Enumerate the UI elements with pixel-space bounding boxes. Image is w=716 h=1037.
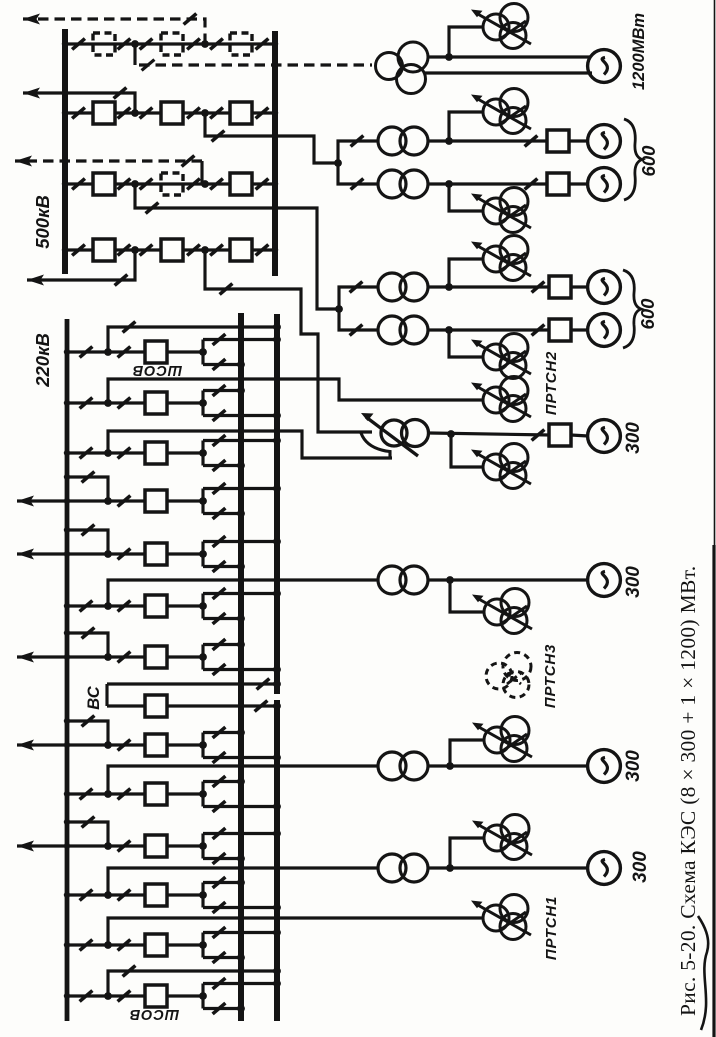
wire: T2 to breaker Q1 [428, 136, 547, 147]
transformer T4 (300MW unit 3) [378, 273, 428, 301]
220kV bay 3 breaker row [104, 442, 207, 464]
breaker Q4 (generator breaker) [549, 319, 571, 341]
generator G7 300MW [588, 564, 621, 597]
wire: T5 to breaker Q4 [428, 325, 550, 336]
busbar 220kV system 2 section B [274, 700, 280, 1021]
label 1200МВт [630, 13, 648, 90]
breaker Q3 (generator breaker) [549, 276, 571, 298]
label ПРТСН3 [542, 644, 559, 708]
svg-text:ШСОВ: ШСОВ [132, 362, 182, 378]
wire: TC to generator G9 [428, 864, 588, 872]
caption Рис. 5-20 [676, 566, 700, 1016]
label ВС [85, 685, 103, 710]
wire: TB to generator G8 [428, 762, 588, 770]
svg-text:ПРТСН2: ПРТСН2 [543, 351, 560, 415]
label ШСОВ (top) [132, 362, 182, 378]
wire: unit tap to TSN2 [449, 112, 483, 141]
aux transformer TSN2 [471, 89, 531, 134]
generator G3 300MW [588, 168, 621, 201]
label ПРТСН2 [543, 351, 560, 415]
220kV bay 7 bypass disconnector [64, 628, 108, 657]
generator G2 300MW [588, 125, 621, 158]
wire: fork to T5 [339, 309, 378, 335]
500kV line feeder W4 (arrow) [23, 88, 135, 114]
220kV bay 2 breaker row [104, 392, 207, 414]
bypass-coupler ШСОВ link to bus (bottom) [108, 966, 281, 996]
svg-text:ВС: ВС [85, 685, 103, 710]
aux transformer TSN3 [471, 188, 531, 233]
220kV bay 7 breaker row [104, 646, 207, 668]
caption underline flourish [698, 916, 708, 1030]
wire: AT to breaker Q5 [430, 430, 550, 441]
node: block-2 feeder fork [335, 305, 343, 313]
busbar 220kV bypass (W0) [65, 319, 70, 1021]
svg-text:ШСОВ: ШСОВ [129, 1006, 179, 1022]
220kV bay 6 bus selector fork [203, 588, 281, 624]
busbar 220kV system 1 [238, 313, 244, 1021]
220kV bay 4 breaker row [104, 490, 207, 512]
wire: T3 to breaker Q2 [428, 179, 547, 190]
transformer T2 (300MW unit 1) [378, 127, 428, 155]
wire: chain2 tap to 600MW duplex block 1 [205, 113, 338, 163]
aux transformer TSN5 [471, 334, 531, 379]
node: block-1 feeder fork [334, 159, 342, 167]
svg-text:300: 300 [623, 566, 644, 598]
svg-text:600: 600 [637, 298, 658, 330]
svg-text:600: 600 [638, 145, 659, 177]
220kV outgoing line (bay 4, arrow) [17, 496, 108, 507]
wire: unit tap to TSN (G7) [450, 580, 484, 612]
220kV bay 3 bus selector fork [203, 435, 281, 471]
500kV line feeder W6 (arrow) [27, 250, 135, 286]
svg-text:1200МВт: 1200МВт [630, 13, 648, 90]
aux transformer TSN4 [471, 236, 531, 281]
wire: bay 10 feeder to unit G8 [108, 766, 378, 794]
500kV breaker chain 3 (middle breaker future) [62, 173, 278, 195]
transformer T5 (300MW unit 4) [378, 316, 428, 344]
aux transformer TSN (G7) [472, 589, 532, 634]
bus section breaker bay ВС (220kV) [107, 679, 281, 717]
220kV bay 2 bus-side link [64, 398, 108, 409]
220kV bay 5 bus selector fork [203, 536, 281, 572]
svg-text:300: 300 [623, 750, 644, 782]
wire: chain4 tap to autotransformer AT [205, 250, 372, 432]
transformer TB (300MW unit G8) [378, 752, 428, 780]
220kV bay 11 breaker row [104, 835, 207, 857]
label ПРТСН1 [543, 896, 560, 960]
220kV bay 6 bus-side link [64, 601, 108, 612]
220kV bay 14 breaker row [104, 985, 207, 1007]
svg-text:300: 300 [630, 851, 651, 883]
bypass-coupler ШСОВ link to bus (top) [108, 322, 281, 352]
220kV bay 13 bus selector fork [203, 927, 281, 963]
wire: T4 to breaker Q3 [428, 282, 550, 293]
wire: unit tap to TSN6 [451, 434, 483, 467]
generator G1 1200MW [588, 50, 621, 83]
wire: fork to T2 [338, 136, 378, 163]
wire: bay 6 feeder to unit G7 [108, 580, 378, 606]
generator G4 300MW [588, 271, 621, 304]
220kV bay 10 bus selector fork [203, 776, 281, 812]
busbar 220kV system 2 section A [274, 314, 280, 694]
220kV bay 13 bus-side link [64, 940, 108, 951]
autotransformer AT 500/220 (on-load regulated) [361, 413, 429, 459]
transformer T1 (1200MW unit, split winding) [376, 42, 429, 94]
220kV bay 10 breaker row [104, 783, 207, 805]
generator G5 300MW [588, 314, 621, 347]
220kV outgoing line (bay 7, arrow) [17, 652, 108, 663]
future 500kV line feeder W3 (dashed, arrow) [23, 14, 205, 45]
220kV bay 5 bypass disconnector [64, 525, 108, 554]
220kV bay 1 breaker row [104, 341, 207, 363]
wire: Q2 to G3 [569, 182, 588, 185]
500kV breaker chain 1 (future) [62, 33, 278, 55]
busbar 500kV system 2 (W2) [272, 31, 278, 276]
aux transformer TSN (G8) [472, 717, 532, 762]
wire: T1 to generator G1 (double leads) [425, 53, 592, 73]
label 220кВ [32, 333, 53, 388]
220kV bay 2 bus selector fork [203, 385, 281, 421]
aux transformer PRTSN2 (reserve) [471, 377, 531, 422]
breaker Q5 (generator breaker) [549, 424, 571, 446]
generator G9 300MW [588, 852, 621, 885]
label ШСОВ (bottom) [129, 1006, 179, 1022]
transformer T3 (300MW unit 2) [378, 170, 428, 198]
220kV bay 12 breaker row [104, 884, 207, 906]
aux transformer TSN (G9) [472, 815, 532, 860]
busbar 500kV system 1 (W1) [62, 29, 68, 274]
220kV bay 14 bus selector fork [203, 978, 281, 1014]
wire: TA to generator G7 [428, 576, 588, 584]
page edge line [713, 0, 716, 1037]
generator G8 300MW [588, 750, 621, 783]
220kV outgoing line (bay 9, arrow) [17, 740, 108, 751]
svg-text:ПРТСН1: ПРТСН1 [543, 896, 560, 960]
svg-text:220кВ: 220кВ [32, 333, 53, 388]
brace: 600MW group 1 [624, 119, 642, 200]
220kV bay 9 bypass disconnector [64, 716, 108, 745]
220kV bay 13 breaker row [104, 934, 207, 956]
220kV bay 9 breaker row [104, 734, 207, 756]
future 500kV line feeder W5 (dashed, arrow) [15, 156, 202, 185]
220kV bay 4 bus selector fork [203, 483, 281, 519]
aux transformer PRTSN1 (reserve) [471, 895, 531, 940]
svg-text:500кВ: 500кВ [32, 195, 53, 249]
wire: chain1 tap to 1200MW unit (dashed) [135, 44, 372, 70]
500kV breaker chain 2 [62, 102, 278, 124]
220kV bay 5 breaker row [104, 543, 207, 565]
wire: Q5 to G6 [571, 435, 588, 436]
220kV bay 1 bus-side link [64, 347, 108, 358]
220kV outgoing line (bay 11, arrow) [17, 841, 108, 852]
220kV bay 6 breaker row [104, 595, 207, 617]
220kV bay 11 bus selector fork [203, 828, 281, 864]
aux transformer PRTSN3 (future, dashed) [486, 653, 531, 698]
wire: Q3 to G4 [571, 285, 588, 288]
220kV bay 7 bus selector fork [203, 639, 281, 675]
500kV breaker chain 4 [62, 239, 278, 261]
wire: chain3 tap to 600MW duplex block 2 [135, 184, 339, 309]
label 600 (block 2) [637, 298, 658, 330]
220kV bay 14 bus-side link [64, 991, 108, 1002]
brace: 600MW group 2 [623, 270, 641, 348]
label 500кВ [32, 195, 53, 249]
wire: fork to T4 [339, 282, 378, 309]
aux transformer TSN1 (1200MW unit) [471, 4, 531, 49]
wire: Q4 to G5 [571, 328, 588, 331]
wire: bay 2 feeder to PRTSN2 [108, 379, 483, 403]
breaker Q2 (generator breaker) [547, 173, 569, 195]
transformer TA (300MW unit G7) [378, 566, 428, 594]
label 300 (unit G7) [623, 566, 644, 598]
220kV bay 10 bus-side link [64, 789, 108, 800]
svg-text:Рис. 5-20. Схема КЭС (8 × 300: Рис. 5-20. Схема КЭС (8 × 300 + 1 × 1200… [676, 566, 700, 1016]
aux transformer TSN6 [471, 444, 531, 489]
wire: bay 12 feeder to unit G9 [108, 868, 378, 895]
svg-text:300: 300 [623, 422, 644, 454]
wire: unit tap to TSN (G8) [450, 740, 484, 766]
220kV bay 11 bypass disconnector [64, 817, 108, 846]
wire: G1 unit tap to TSN1 [449, 27, 483, 57]
220kV bay 1 bus selector fork [203, 334, 281, 370]
label 600 (block 1) [638, 145, 659, 177]
wire: Q1 to G2 [569, 139, 588, 142]
label 300 (unit G8) [623, 750, 644, 782]
wire: bay 3 feeder to AT (220kV side) [108, 431, 392, 458]
wire: unit tap to TSN3 [449, 184, 483, 211]
220kV bay 3 bus-side link [64, 448, 108, 459]
220kV bay 9 bus selector fork [203, 727, 281, 763]
wire: bay 13 feeder to PRTSN1 [108, 918, 483, 945]
generator G6 300MW [588, 420, 621, 453]
transformer TC (300MW unit G9) [378, 854, 428, 882]
220kV bay 12 bus selector fork [203, 877, 281, 913]
wire: unit tap to TSN4 [449, 259, 483, 287]
breaker Q1 (generator breaker) [547, 130, 569, 152]
svg-text:ПРТСН3: ПРТСН3 [542, 644, 559, 708]
220kV outgoing line (bay 5, arrow) [17, 549, 108, 560]
label 300 (AT unit) [623, 422, 644, 454]
wire: fork to T3 [338, 163, 378, 189]
220kV bay 12 bus-side link [64, 890, 108, 901]
220kV bay 4 bypass disconnector [64, 472, 108, 501]
label 300 (unit G9) [630, 851, 651, 883]
wire: unit tap to TSN5 [449, 330, 483, 357]
wire: unit tap to TSN (G9) [450, 838, 484, 868]
